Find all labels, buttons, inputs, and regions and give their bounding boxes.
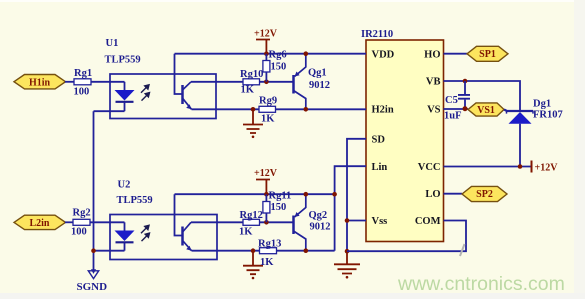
svg-text:H2in: H2in — [372, 105, 394, 116]
svg-text:1K: 1K — [241, 85, 255, 96]
svg-text:VB: VB — [426, 77, 441, 88]
transistor Qg2 9012 — [294, 194, 331, 251]
wire L2in to Rg2 — [65, 221, 73, 223]
svg-text:SD: SD — [372, 134, 386, 145]
svg-text:9012: 9012 — [310, 222, 331, 233]
resistor Rg1 — [74, 68, 93, 98]
svg-text:150: 150 — [271, 202, 287, 213]
resistor Rg10 — [240, 69, 263, 96]
node Qg1 collector — [304, 107, 309, 112]
node COM return junction — [345, 249, 350, 254]
svg-text:Rg9: Rg9 — [259, 96, 277, 107]
svg-text:www.cntronics.com: www.cntronics.com — [397, 273, 565, 295]
wire U2 collector to Rg12 — [191, 221, 243, 223]
svg-text:TLP559: TLP559 — [117, 195, 153, 206]
svg-text:L2in: L2in — [29, 218, 49, 229]
node diode to VCC rail — [518, 164, 523, 169]
node gnd tap — [251, 107, 256, 112]
svg-text:SGND: SGND — [77, 281, 108, 293]
node base Qg1 — [264, 80, 269, 85]
power +12V (U2) — [254, 168, 278, 194]
svg-text:Rg11: Rg11 — [269, 191, 292, 202]
svg-text:U1: U1 — [106, 38, 119, 49]
svg-text:Vss: Vss — [372, 216, 388, 227]
wire Lin to chip — [335, 166, 366, 251]
svg-text:+12V: +12V — [535, 162, 559, 173]
svg-text:VDD: VDD — [372, 49, 395, 60]
ground (U2 emitter) — [243, 251, 263, 280]
svg-text:TLP559: TLP559 — [105, 55, 141, 66]
svg-text:IR2110: IR2110 — [361, 29, 393, 40]
optocoupler U1 box — [105, 38, 217, 119]
light arrows U2 — [141, 225, 150, 241]
ground (U1 emitter) — [243, 109, 263, 138]
wire U2 LED cathode to SGND rail — [94, 250, 125, 252]
wire U2 emitter line — [192, 250, 260, 252]
svg-text:1K: 1K — [261, 114, 275, 125]
node Qg1 emitter on rail — [304, 51, 309, 56]
svg-text:150: 150 — [271, 62, 287, 73]
node Vss junction — [345, 218, 350, 223]
svg-text:Rg2: Rg2 — [73, 208, 91, 219]
resistor Rg11 — [263, 191, 291, 223]
node VS cap tap — [463, 106, 468, 111]
wire VCC to +12V — [444, 166, 532, 168]
resistor Rg12 — [239, 210, 263, 238]
port SP1 — [467, 46, 508, 61]
wire Vss to ground vertical — [347, 220, 366, 222]
port VS1 — [468, 103, 504, 116]
svg-text:100: 100 — [71, 227, 87, 238]
wire U1 LED cathode to SGND rail — [94, 111, 125, 270]
svg-text:VCC: VCC — [418, 162, 441, 173]
top rail wire to VDD — [175, 53, 367, 55]
port H1in — [14, 75, 66, 89]
svg-text:Rg6: Rg6 — [269, 50, 287, 61]
capacitor C5 — [444, 81, 470, 121]
wire HO to SP1 — [444, 53, 468, 55]
svg-text:Rg12: Rg12 — [240, 210, 263, 221]
phototransistor U2 — [175, 194, 192, 251]
wire Rg10 to base node — [260, 81, 294, 83]
svg-text:100: 100 — [74, 87, 90, 98]
IC U3 IR2110 driver — [361, 29, 444, 242]
wire U1 collector to Rg10 — [191, 81, 243, 83]
wire LO to SP2 — [444, 193, 463, 195]
svg-text:C5: C5 — [445, 95, 458, 106]
node VB cap tap — [463, 79, 468, 84]
svg-text:FR107: FR107 — [533, 110, 563, 121]
svg-text:Lin: Lin — [372, 162, 388, 173]
wire Rg9 to chip H2in — [276, 108, 367, 110]
svg-text:Rg1: Rg1 — [74, 68, 92, 79]
resistor Rg6 — [263, 50, 287, 82]
wire Rg1 to U1 LED — [91, 81, 125, 83]
LED inside U2 — [115, 222, 135, 250]
svg-text:1K: 1K — [239, 227, 253, 238]
svg-text:+12V: +12V — [254, 29, 278, 40]
svg-text:1uF: 1uF — [444, 110, 462, 121]
svg-text:H1in: H1in — [29, 77, 51, 88]
port L2in — [14, 215, 66, 229]
svg-text:SP2: SP2 — [476, 189, 493, 200]
svg-text:COM: COM — [415, 216, 441, 227]
node SGND junction — [91, 248, 96, 253]
wire COM return loop — [347, 221, 466, 252]
power +12V (VCC) — [532, 161, 559, 174]
wire U1 emitter line to chip H2in — [192, 108, 260, 110]
svg-text:Qg1: Qg1 — [308, 68, 327, 79]
wire VS to port — [444, 108, 469, 110]
resistor Rg9 — [259, 96, 277, 125]
ground SGND — [77, 269, 108, 293]
optocoupler U2 box — [110, 180, 217, 260]
svg-text:1K: 1K — [260, 257, 274, 268]
LED inside U1 — [115, 82, 135, 111]
svg-text:VS1: VS1 — [477, 105, 495, 116]
svg-text:Rg10: Rg10 — [240, 69, 263, 80]
svg-text:Dg1: Dg1 — [533, 99, 551, 110]
svg-text:Qg2: Qg2 — [309, 210, 328, 221]
wire Rg2 to U2 LED — [90, 221, 125, 223]
node gnd tap U2 — [251, 248, 256, 253]
node Qg2 emitter on rail — [304, 192, 309, 197]
power +12V (U1) — [254, 29, 278, 54]
node rail end at Lin vertical — [332, 192, 337, 197]
svg-text:LO: LO — [425, 189, 440, 200]
svg-text:+12V: +12V — [254, 168, 278, 179]
transistor Qg1 9012 — [294, 54, 331, 110]
rail U2 wire — [175, 193, 335, 195]
node base Qg2 — [264, 220, 269, 225]
ground (SD/Vss/COM) — [334, 251, 360, 278]
wire Rg13 to Lin vertical — [277, 250, 335, 252]
svg-text:HO: HO — [424, 49, 440, 60]
wire VB — [444, 81, 521, 111]
light arrows U1 — [141, 85, 150, 101]
wire jump artifact — [460, 244, 465, 256]
phototransistor U1 — [175, 54, 192, 110]
node +12V rail — [264, 51, 269, 56]
svg-text:9012: 9012 — [309, 80, 330, 91]
wire H1in to Rg1 — [65, 81, 74, 83]
diode Dg1 FR107 — [504, 99, 563, 167]
svg-text:Rg13: Rg13 — [258, 239, 281, 250]
node Qg2 collector — [304, 248, 309, 253]
svg-text:VS: VS — [427, 105, 441, 116]
resistor Rg2 — [71, 208, 91, 238]
resistor Rg13 — [258, 239, 281, 269]
svg-text:SP1: SP1 — [479, 49, 496, 60]
svg-text:U2: U2 — [118, 180, 131, 191]
wire SD to ground vertical — [347, 139, 366, 251]
wire Rg12 to Qg2 base — [260, 221, 294, 223]
port SP2 — [462, 186, 507, 201]
node +12V rail U2 — [264, 192, 269, 197]
